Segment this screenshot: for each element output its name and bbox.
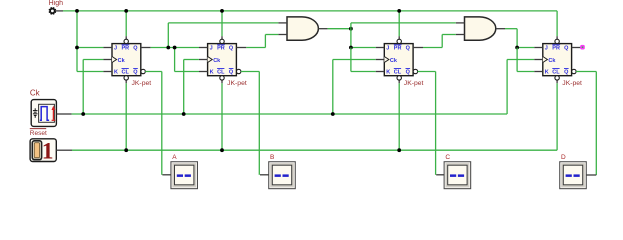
svg-text:Reset: Reset: [30, 130, 47, 137]
svg-text:PR: PR: [122, 46, 130, 52]
wire reset tap to CL2: [221, 83, 223, 150]
svg-text:CL: CL: [552, 70, 560, 76]
pin stub Ck3: [376, 59, 385, 61]
svg-text:JK-pet: JK-pet: [562, 80, 582, 87]
wire reset tap to CL4: [556, 83, 558, 150]
wire AND2 output: [505, 28, 517, 30]
pin stub CL3: [398, 80, 400, 83]
and-gate A1: [287, 17, 318, 40]
wire High to PR4 vertical: [556, 11, 558, 36]
svg-text:J: J: [210, 46, 213, 52]
wire High to PR2 vertical: [221, 11, 223, 36]
pin stub J3: [376, 47, 385, 49]
wire High rail: [63, 10, 557, 12]
wire AND1 to J3: [350, 29, 352, 48]
svg-text:CL: CL: [394, 70, 402, 76]
wire reset tap to CL3: [398, 83, 400, 150]
pin stub CL2: [221, 80, 223, 83]
pin stub display D: [586, 174, 596, 176]
svg-text:Ck: Ck: [118, 58, 126, 64]
svg-text:K: K: [386, 70, 390, 76]
pin stub A1 output: [318, 28, 327, 30]
label Reset (active low): [30, 128, 46, 130]
pin stub Ck4: [534, 59, 543, 61]
pin bubble CL2: [220, 76, 224, 80]
wire Q1 to AND1 input 1: [167, 23, 169, 48]
pin bubble Qbar1: [141, 69, 145, 73]
wire reset rail: [72, 149, 557, 151]
pin stub display A: [162, 174, 171, 176]
pin stub Ck2: [199, 59, 208, 61]
wire AND1 output: [328, 28, 351, 30]
svg-text:B: B: [270, 154, 274, 161]
junction J4/K4 node: [515, 46, 519, 50]
wire Qbar4 to display D: [576, 71, 596, 73]
pin stub Q1: [141, 47, 151, 49]
junction Q1 / AND1 tap: [166, 46, 170, 50]
wire reset tap to CL1: [125, 83, 127, 150]
wire AND1 to AND2 input 1: [350, 23, 352, 29]
clock source Ck: [31, 100, 56, 127]
wire Qbar2 to display B: [241, 71, 259, 73]
pin stub PR4: [556, 36, 558, 39]
svg-text:K: K: [545, 70, 549, 76]
wire clock tap to Ck4: [506, 60, 508, 115]
svg-text:JK-pet: JK-pet: [404, 80, 424, 87]
pin bubble PR4: [555, 39, 559, 43]
pin stub CL1: [125, 80, 127, 83]
wire clock tap to Ck2: [183, 60, 185, 115]
flip-flop U1 JK-pet: [112, 44, 141, 76]
svg-text:High: High: [49, 0, 64, 7]
indicator display A: [171, 162, 197, 189]
svg-text:PR: PR: [217, 46, 225, 52]
pin stub J2: [199, 47, 208, 49]
indicator display D: [560, 162, 586, 189]
wire clock stub: [57, 113, 72, 115]
pin stub A2 input 1: [456, 22, 465, 24]
pin stub Ck1: [103, 59, 112, 61]
wire AND1 to K3: [350, 48, 352, 72]
junction reset rail / CL3: [397, 148, 401, 152]
wire High to J1/K1 vertical: [76, 11, 78, 72]
input terminal High: [49, 7, 56, 14]
svg-text:Q: Q: [133, 46, 138, 52]
indicator display B: [269, 162, 295, 189]
svg-text:JK-pet: JK-pet: [132, 80, 152, 87]
wire High to PR1 vertical: [125, 11, 127, 36]
junction clock rail / Ck2: [182, 112, 186, 116]
reset source (logic switch 1): [30, 138, 56, 164]
pin stub K3: [376, 71, 385, 73]
junction clock rail / Ck1: [81, 112, 85, 116]
pin bubble PR1: [124, 39, 128, 43]
flip-flop U3 JK-pet: [384, 44, 413, 76]
wire Qbar3 to display C: [418, 71, 436, 73]
svg-text:C: C: [445, 154, 450, 161]
wire High to PR3 vertical: [398, 11, 400, 36]
svg-text:CL: CL: [217, 70, 225, 76]
pin stub A2 input 2: [456, 34, 465, 36]
svg-text:PR: PR: [394, 46, 402, 52]
junction J1/K1 node: [75, 46, 79, 50]
flip-flop U2 JK-pet: [208, 44, 237, 76]
svg-text:Q: Q: [229, 46, 234, 52]
svg-text:J: J: [545, 46, 548, 52]
svg-text:J: J: [386, 46, 389, 52]
svg-text:Q: Q: [133, 70, 138, 76]
wire clock tap to Ck3: [332, 60, 334, 115]
svg-text:Ck: Ck: [390, 58, 398, 64]
pin stub A1 input 2: [278, 34, 287, 36]
pin stub Q4: [572, 47, 581, 49]
wire Qbar1 to display A: [145, 71, 162, 73]
pin stub display C: [436, 174, 444, 176]
svg-text:Q: Q: [229, 70, 234, 76]
svg-text:JK-pet: JK-pet: [227, 80, 247, 87]
and-gate A2: [465, 17, 496, 40]
junction reset rail / CL1: [124, 148, 128, 152]
pin stub A1 input 1: [278, 22, 287, 24]
junction High rail / J1K1 tap: [75, 9, 79, 13]
svg-text:Q: Q: [564, 70, 569, 76]
pin stub Q3: [413, 47, 423, 49]
svg-text:Q: Q: [564, 46, 569, 52]
pin stub K2: [199, 71, 208, 73]
pin bubble CL4: [555, 76, 559, 80]
junction High rail / PR1: [124, 9, 128, 13]
pin bubble PR2: [220, 39, 224, 43]
pin stub CL4: [556, 80, 558, 83]
wire Q1 to K2: [174, 48, 176, 72]
pin bubble Qbar2: [237, 69, 241, 73]
svg-text:K: K: [210, 70, 214, 76]
svg-text:PR: PR: [552, 46, 560, 52]
svg-text:Q: Q: [406, 46, 411, 52]
junction reset rail / CL2: [220, 148, 224, 152]
svg-text:1: 1: [42, 138, 54, 164]
pin bubble CL1: [124, 76, 128, 80]
svg-text:J: J: [114, 46, 117, 52]
pin stub K1: [103, 71, 112, 73]
junction High rail / PR3: [397, 9, 401, 13]
pin stub Q2: [236, 47, 246, 49]
pin bubble PR3: [397, 39, 401, 43]
pin stub PR1: [125, 36, 127, 39]
wire clock rail: [72, 113, 508, 115]
indicator display C: [444, 162, 470, 189]
svg-text:A: A: [172, 154, 177, 161]
wire J1 feed: [77, 47, 103, 49]
pin bubble Qbar3: [413, 69, 417, 73]
pin bubble Qbar4: [572, 69, 576, 73]
wire K1 feed: [77, 71, 103, 73]
svg-text:Ck: Ck: [213, 58, 221, 64]
svg-text:K: K: [114, 70, 118, 76]
pin stub A2 output: [496, 28, 505, 30]
wire Q3 to AND2 input 2: [423, 47, 442, 49]
svg-text:Ck: Ck: [30, 89, 41, 98]
wire Q2 to AND1 input 2: [246, 47, 265, 49]
pin stub J1: [103, 47, 112, 49]
junction clock rail / Ck3: [331, 112, 335, 116]
pin stub display B: [260, 174, 269, 176]
wire Q1 to J2: [151, 47, 199, 49]
junction Q1 / K2 tap: [173, 46, 177, 50]
wire reset stub: [56, 149, 72, 151]
pin stub J4: [534, 47, 543, 49]
svg-text:Q: Q: [406, 70, 411, 76]
pin stub PR2: [221, 36, 223, 39]
pin bubble CL3: [397, 76, 401, 80]
junction AND1 output node: [349, 27, 353, 31]
svg-text:D: D: [561, 154, 566, 161]
flip-flop U4 JK-pet: [543, 44, 572, 76]
pin stub K4: [534, 71, 543, 73]
svg-text:CL: CL: [122, 70, 130, 76]
node Q4 open pin marker: [580, 45, 585, 50]
pin stub PR3: [398, 36, 400, 39]
svg-text:Ck: Ck: [548, 58, 556, 64]
wire AND2 to K4: [516, 48, 518, 72]
wire High terminal stub: [56, 10, 64, 12]
wire AND2 to J4: [516, 29, 518, 48]
junction J3/K3 node: [349, 46, 353, 50]
junction High rail / PR2: [220, 9, 224, 13]
wire clock tap to Ck1: [82, 60, 84, 115]
